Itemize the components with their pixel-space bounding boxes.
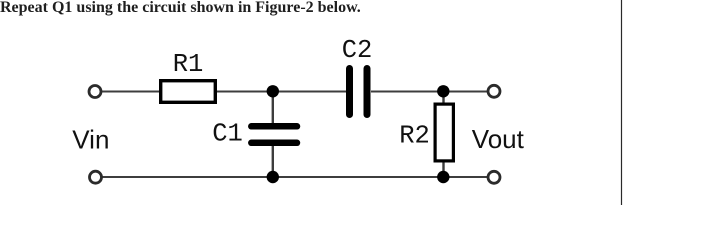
svg-text:C1: C1 — [212, 119, 243, 148]
wire: node A down to C1 top plate — [272, 92, 274, 125]
wire: node B down to R2 — [442, 92, 444, 105]
table cell border line — [621, 0, 623, 205]
junction node A (top of C1) — [267, 85, 279, 97]
terminal: Vout top — [488, 85, 500, 97]
junction node C (bottom of C1) — [267, 171, 279, 183]
junction node D (bottom of R2) — [437, 171, 449, 183]
junction node B (top of R2) — [437, 85, 449, 97]
wire: C2 to Vout top terminal (through node B) — [371, 91, 487, 93]
svg-text:R1: R1 — [173, 50, 204, 79]
resistor R1 — [161, 81, 216, 103]
wire: C1 bottom plate down to bottom rail — [272, 145, 274, 177]
svg-text:Vout: Vout — [472, 124, 525, 154]
terminal: Vout bottom — [488, 171, 500, 183]
svg-text:Vin: Vin — [72, 124, 109, 154]
terminal: Vin bottom — [90, 171, 102, 183]
capacitor C2 — [350, 69, 368, 115]
terminal: Vin top — [89, 86, 101, 98]
svg-text:C2: C2 — [342, 36, 373, 65]
resistor R2 — [435, 104, 453, 161]
wire: bottom rail Vin to Vout — [103, 176, 488, 178]
wire: Vin top terminal to R1 — [102, 91, 160, 93]
capacitor C1 — [251, 126, 297, 143]
caption text — [0, 0, 361, 17]
wire: R1 to C2 (through node A) — [216, 91, 346, 93]
wire: R2 down to bottom rail — [442, 161, 444, 177]
svg-text:R2: R2 — [399, 122, 430, 151]
